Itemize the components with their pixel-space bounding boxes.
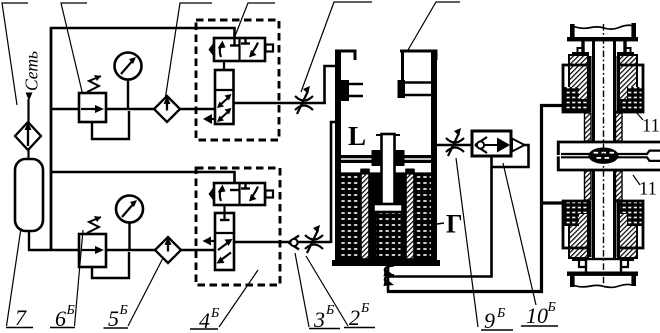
label 5Б bbox=[104, 258, 164, 331]
wire drain to 10Б bottom bbox=[388, 156, 492, 277]
receiving tube block bbox=[398, 80, 406, 98]
svg-text:11: 11 bbox=[639, 180, 657, 200]
spindle top flange bbox=[567, 23, 638, 41]
wire top valve to throttle bbox=[233, 102, 326, 105]
wire pilot to main valve (bottom) bbox=[223, 205, 225, 220]
wire throttle to tank (bottom inlet) bbox=[331, 122, 338, 243]
leader line (cropped label) to throttle bbox=[301, 2, 372, 92]
svg-text:6: 6 bbox=[55, 306, 66, 331]
leader line (cropped label) to filter 5 bbox=[165, 3, 212, 100]
filter (bottom row) bbox=[155, 237, 181, 263]
nozzle block on left wall bbox=[341, 80, 349, 101]
spindle centerline bbox=[603, 24, 605, 284]
svg-text:Б: Б bbox=[66, 303, 75, 318]
wire top main line bbox=[50, 108, 217, 111]
upper left bearing cap bbox=[572, 52, 589, 56]
svg-text:Сеть: Сеть bbox=[22, 51, 42, 91]
label Г tick bbox=[437, 223, 444, 224]
throttle 9Б bbox=[446, 128, 464, 156]
crossbar in tank bbox=[341, 155, 431, 163]
lower right bracket bbox=[616, 201, 643, 248]
leader line (cropped label) to pilot valve 4 bbox=[235, 3, 275, 36]
dashed enclosure (top valve unit) bbox=[196, 20, 279, 140]
pilot valve (top) bbox=[209, 38, 274, 61]
throttle (top) bbox=[295, 86, 313, 114]
spindle shaft upper bbox=[594, 41, 615, 141]
lower sleeve hatch right bbox=[616, 171, 623, 200]
label 3Б bbox=[295, 253, 340, 332]
wire 10Б output loop bbox=[491, 145, 529, 167]
tank 8: left wall bbox=[335, 51, 341, 264]
label 4Б bbox=[190, 270, 258, 333]
upper right bearing cap bbox=[617, 52, 634, 56]
lap table upper bar bbox=[557, 141, 660, 155]
label 2Б bbox=[306, 256, 375, 330]
wire pilot feed bottom bbox=[50, 172, 235, 190]
tank top edge right bbox=[400, 51, 436, 81]
wire filter to receiver bbox=[27, 150, 29, 160]
bearing inner strip upper right bbox=[617, 56, 621, 112]
tube plate bbox=[374, 204, 403, 212]
upper sleeve hatch right bbox=[616, 113, 623, 141]
lower right bearing seal bbox=[627, 202, 642, 226]
lower right bearing cap bbox=[617, 257, 634, 261]
wire tank to throttle 9Б bbox=[436, 144, 473, 147]
upper left bearing (hatched) bbox=[569, 55, 588, 100]
wire bottom main line bbox=[28, 249, 216, 252]
exhaust arrow (bottom valve) bbox=[203, 237, 212, 246]
svg-text:L: L bbox=[348, 121, 366, 151]
svg-text:3: 3 bbox=[313, 307, 325, 332]
lower left bearing (hatched) bbox=[569, 213, 588, 258]
bearing inner strip lower right bbox=[617, 201, 621, 257]
spindle bottom step bbox=[579, 259, 628, 273]
cup inner walls (solid) bbox=[368, 173, 376, 259]
receiving tube (right) bbox=[404, 83, 431, 96]
receiver 7 bbox=[15, 159, 43, 231]
spindle neck top bbox=[583, 41, 625, 52]
tank top edge left bbox=[335, 51, 355, 60]
main valve (bottom) bbox=[215, 213, 234, 270]
main valve (top) bbox=[215, 70, 234, 124]
liquid surface bbox=[341, 172, 431, 175]
tube clamps bbox=[372, 150, 382, 166]
upper right bearing (hatched) bbox=[618, 55, 637, 100]
bus vertical wire bbox=[50, 27, 53, 251]
wire pilot to main valve (top) bbox=[223, 61, 225, 71]
dip tube bbox=[376, 134, 400, 206]
svg-text:7: 7 bbox=[15, 305, 27, 330]
spindle shaft lower bbox=[594, 170, 615, 262]
tank bottom bbox=[332, 260, 440, 266]
bearing inner strip lower left bbox=[588, 201, 592, 257]
gauge 5Б (bottom) bbox=[116, 196, 143, 252]
tank right wall bbox=[431, 51, 437, 264]
svg-text:Б: Б bbox=[496, 306, 505, 321]
cup wall right (hatched) bbox=[406, 169, 415, 260]
svg-text:Б: Б bbox=[210, 306, 219, 321]
svg-text:11: 11 bbox=[642, 117, 660, 137]
lower left bearing seal bbox=[564, 202, 579, 226]
svg-text:4: 4 bbox=[199, 308, 210, 333]
workpiece lens (ellipse) bbox=[589, 148, 619, 164]
upper left bearing seal bbox=[564, 87, 579, 111]
leader line (cropped label) to supply filter bbox=[2, 3, 28, 105]
wire throttle to tank (top inlet) bbox=[325, 66, 338, 104]
filter F1 (supply filter) bbox=[15, 122, 41, 150]
regulator 6Б (bottom) bbox=[79, 216, 129, 278]
upper left bracket bbox=[563, 65, 590, 112]
regulator 6 (top) bbox=[79, 75, 129, 139]
cup wall left (hatched) bbox=[361, 169, 370, 260]
nozzle tubes bbox=[349, 84, 363, 96]
wire to lower spindle port bbox=[540, 201, 565, 204]
drain flow curls bbox=[385, 266, 394, 282]
bearing inner strip upper left bbox=[588, 56, 592, 112]
svg-text:Б: Б bbox=[119, 303, 128, 318]
label 6Б bbox=[50, 230, 83, 331]
wire bottom valve to check valve bbox=[233, 241, 331, 244]
wire pilot feed top bbox=[50, 28, 235, 45]
dashed enclosure (bottom valve unit) bbox=[196, 168, 280, 285]
svg-text:Г: Г bbox=[446, 210, 463, 239]
gauge 5 (top) bbox=[115, 53, 142, 111]
wire receiver outlet bbox=[28, 231, 30, 251]
svg-text:Б: Б bbox=[325, 303, 334, 318]
tank drain wire bbox=[387, 264, 390, 292]
svg-text:2: 2 bbox=[349, 305, 360, 330]
converter 10Б bbox=[472, 131, 525, 156]
liquid Г fill bbox=[341, 175, 431, 261]
label 7 bbox=[6, 228, 33, 330]
svg-text:Б: Б bbox=[360, 301, 369, 316]
upper right bearing seal bbox=[627, 87, 642, 111]
filter (top row) bbox=[154, 96, 180, 122]
supply inlet arrow bbox=[26, 93, 33, 101]
spindle bottom flange bbox=[567, 272, 638, 288]
lower sleeve hatch left bbox=[585, 171, 592, 200]
svg-text:Б: Б bbox=[547, 300, 556, 315]
label 10Б bbox=[503, 163, 558, 328]
label 11 (upper) bbox=[636, 112, 660, 137]
exhaust arrow (top valve) bbox=[203, 114, 212, 124]
leader line (cropped label) to regulator 6 bbox=[61, 3, 87, 100]
label 11 (lower) bbox=[633, 175, 657, 200]
svg-text:5: 5 bbox=[108, 306, 119, 331]
wire supply arrow to filter bbox=[27, 99, 29, 124]
svg-text:10: 10 bbox=[526, 303, 548, 328]
wire drain to spindle ports bbox=[387, 106, 563, 292]
lower left bracket bbox=[563, 201, 590, 248]
svg-text:9: 9 bbox=[484, 308, 495, 333]
leader line (cropped label) to tank bbox=[408, 2, 460, 50]
lap table lower bar bbox=[557, 156, 660, 171]
upper sleeve hatch left bbox=[585, 113, 592, 141]
lower right bearing (hatched) bbox=[618, 213, 637, 258]
label 9Б bbox=[456, 158, 513, 333]
throttle 2Б bbox=[305, 225, 323, 253]
lower left bearing cap bbox=[572, 257, 589, 261]
pilot valve (bottom) bbox=[209, 183, 274, 205]
upper right bracket bbox=[616, 65, 643, 112]
check valve 3Б bbox=[289, 236, 300, 250]
